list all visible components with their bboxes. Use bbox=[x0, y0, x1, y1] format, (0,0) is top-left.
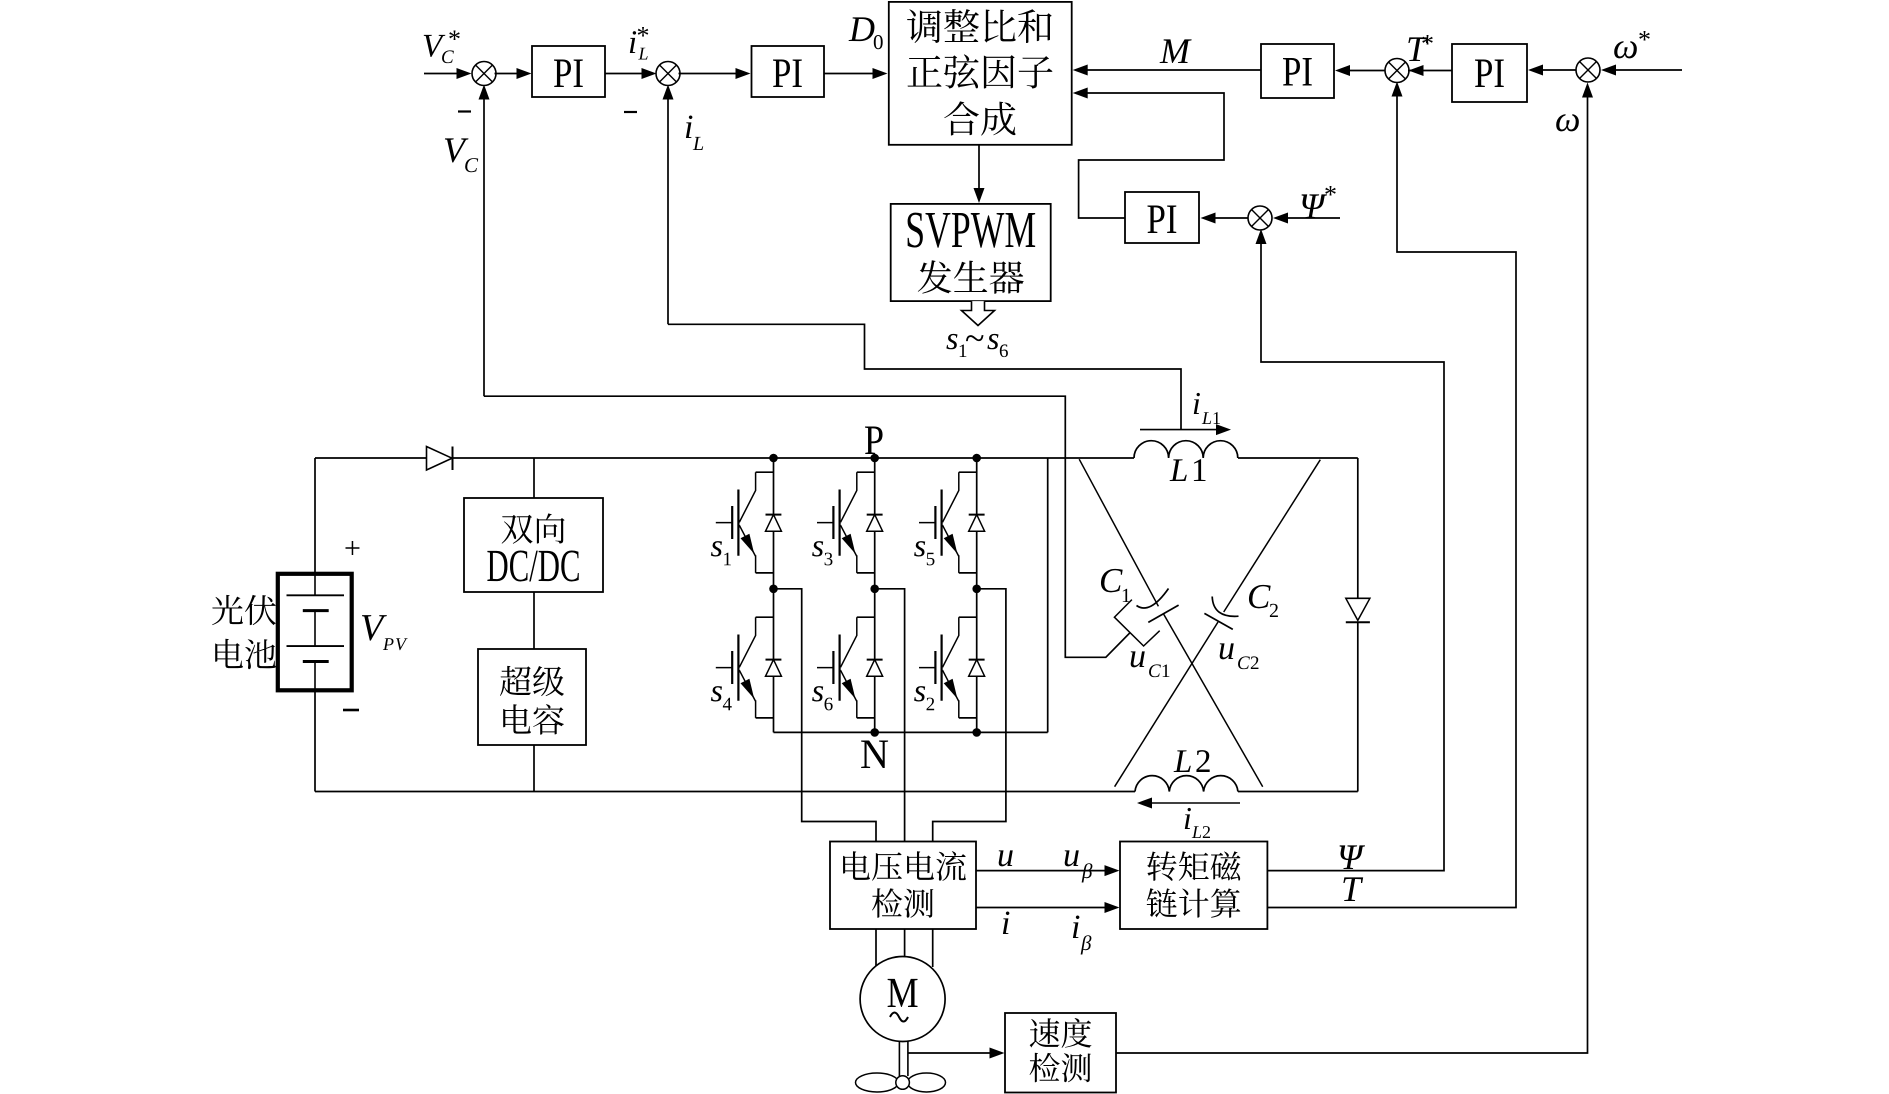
wire inverter leg 3 bbox=[976, 458, 978, 732]
node P label bbox=[865, 426, 883, 454]
wire Vc sense from capacitor C1 bbox=[484, 396, 1130, 657]
wire Vc* input bbox=[424, 68, 472, 79]
diode D1 (PV series diode) bbox=[427, 447, 453, 471]
wire inverter leg 1 bbox=[773, 458, 775, 732]
diode D2 (Z-source diode) bbox=[1346, 598, 1370, 622]
node P-rail junction leg 2 bbox=[870, 454, 879, 463]
wire iL feedback rising bbox=[663, 85, 674, 325]
wire N rail bbox=[774, 731, 1048, 733]
node iL1 current arrow bbox=[1140, 424, 1231, 435]
wire phase C output bbox=[933, 589, 1006, 842]
PI controller U4 (torque) box bbox=[1261, 44, 1334, 98]
wire M feedback (torque PI output to modulation box) bbox=[1073, 65, 1261, 76]
node M label bbox=[1160, 39, 1192, 63]
PI controller U6 (flux) box bbox=[1125, 192, 1199, 243]
wire diagonal L1-to-N upper segment bbox=[1224, 460, 1321, 612]
wire shaft to speed detection bbox=[908, 1048, 1005, 1059]
inductor L2 bbox=[1135, 776, 1238, 792]
node iL2 label bbox=[1185, 808, 1210, 838]
block supercapacitor bbox=[478, 649, 586, 745]
wire inverter leg 2 bbox=[874, 458, 876, 732]
node N-rail junction leg 2 bbox=[870, 728, 879, 737]
node iL* label bbox=[630, 27, 648, 60]
node Vc* setpoint label bbox=[424, 30, 460, 63]
wire PI5 to SUM3 bbox=[1408, 65, 1452, 76]
node T* label bbox=[1408, 35, 1432, 61]
node L2 label bbox=[1174, 750, 1210, 772]
summing junction SUM1 (Vc error) bbox=[472, 62, 496, 86]
node omega feedback label bbox=[1556, 114, 1579, 131]
capacitor C1 bbox=[1137, 589, 1179, 623]
wire SUM2 to PI2 bbox=[679, 68, 751, 79]
wire DC/DC top connection bbox=[533, 458, 535, 498]
wire Z-network left edge bbox=[1047, 458, 1049, 732]
node psi* label bbox=[1302, 186, 1336, 218]
wire PV positive lead bbox=[314, 458, 316, 574]
wire phase B output bbox=[875, 589, 905, 842]
wire u to torque-flux calculator bbox=[976, 865, 1120, 876]
node C2 label bbox=[1249, 585, 1278, 617]
node T output label bbox=[1343, 877, 1363, 901]
wire SUM5 to PI6 bbox=[1201, 213, 1249, 224]
battery BT1 (PV array) outline bbox=[278, 574, 352, 691]
node Vpv label bbox=[362, 615, 408, 650]
node uC1 label bbox=[1131, 651, 1170, 677]
wire omega feedback to SUM4 bbox=[1116, 83, 1593, 1054]
node omega* label bbox=[1614, 31, 1650, 58]
wire diagonal L1-to-N lower segment bbox=[1115, 622, 1218, 787]
wire supercapacitor bottom connection bbox=[533, 745, 535, 792]
wire i to torque-flux calculator bbox=[976, 902, 1120, 913]
wire flux-PI output to modulation box input 2 bbox=[1073, 88, 1224, 219]
wire top rail right section bbox=[1238, 457, 1358, 459]
wire SUM3 to PI4 bbox=[1335, 65, 1387, 76]
block U3: modulation-ratio and sine-factor synthesis bbox=[889, 2, 1072, 145]
wire motor phase leads bbox=[876, 929, 933, 967]
transistor S6 with antiparallel diode (bottom leg 2) bbox=[812, 617, 883, 718]
wire Psi feedback to SUM5 bbox=[1256, 229, 1445, 871]
wire omega* input bbox=[1601, 65, 1682, 76]
propeller load bbox=[856, 1073, 946, 1092]
node minus label bbox=[343, 709, 359, 712]
wire modulation box to SVPWM generator bbox=[974, 145, 985, 203]
wire diagonal P-to-L2 lower segment bbox=[1164, 614, 1263, 787]
wire bottom DC rail bbox=[315, 791, 1358, 793]
node PV battery label bbox=[212, 595, 276, 669]
node uC1 sense tap bbox=[1114, 600, 1159, 646]
node minus sign at SUM1 bbox=[458, 110, 471, 112]
wire iL sense from inductor L1 bbox=[668, 324, 1181, 429]
transistor S5 with antiparallel diode (top leg 3) bbox=[914, 472, 985, 573]
node D0 label bbox=[849, 17, 883, 49]
wire PI1 to SUM2 bbox=[605, 68, 657, 79]
wire diagonal P-to-L2 upper segment bbox=[1079, 459, 1158, 606]
wire Z-network right edge upper bbox=[1357, 458, 1359, 598]
PI controller U2 box bbox=[752, 46, 825, 97]
summing junction SUM3 (torque error) bbox=[1385, 59, 1409, 83]
wire top DC rail bbox=[315, 457, 1134, 459]
wire Z-network right edge lower bbox=[1357, 622, 1359, 791]
node C1 label bbox=[1101, 569, 1130, 602]
wire T feedback to SUM3 bbox=[1267, 82, 1516, 908]
PI controller U1 box bbox=[532, 46, 605, 97]
node plus label bbox=[345, 541, 359, 555]
node iL1 label bbox=[1194, 393, 1220, 424]
wire motor shaft bbox=[899, 1042, 908, 1077]
transistor S4 with antiparallel diode (bottom leg 1) bbox=[711, 617, 782, 718]
PI controller U5 (speed) box bbox=[1452, 44, 1527, 102]
capacitor C2 bbox=[1204, 597, 1238, 630]
wire SUM1 to PI1 bbox=[495, 68, 532, 79]
node P-rail junction leg 3 bbox=[972, 454, 981, 463]
block U8: bidirectional DC/DC converter bbox=[464, 498, 603, 592]
wire SUM4 to PI5 bbox=[1528, 65, 1576, 76]
transistor S1 with antiparallel diode (top leg 1) bbox=[711, 472, 782, 573]
wire Vc feedback rising bbox=[479, 85, 490, 397]
wire PI2 to modulation box bbox=[824, 68, 888, 79]
wire phase A output bbox=[774, 589, 877, 842]
node iL feedback label bbox=[686, 115, 703, 150]
node i-beta label bbox=[1073, 915, 1092, 954]
node phase midpoint junction leg 3 bbox=[972, 585, 981, 594]
node uC2 label bbox=[1220, 643, 1259, 669]
block U11: speed detection bbox=[1005, 1013, 1116, 1093]
node s1~s6 label bbox=[946, 334, 1008, 357]
summing junction SUM4 (speed error) bbox=[1576, 58, 1600, 82]
node phase midpoint junction leg 1 bbox=[769, 585, 778, 594]
node i label bbox=[1003, 911, 1010, 934]
node u-beta label bbox=[1065, 850, 1093, 882]
node u label bbox=[999, 850, 1013, 866]
block U7: SVPWM generator bbox=[891, 204, 1051, 301]
wire psi* input bbox=[1273, 213, 1340, 224]
transistor S3 with antiparallel diode (top leg 2) bbox=[812, 472, 883, 573]
bus arrow s1-s6 (hollow) bbox=[962, 301, 995, 325]
node minus sign at SUM2 bbox=[624, 111, 637, 113]
node Psi output label bbox=[1340, 845, 1365, 869]
node N-rail junction leg 3 bbox=[972, 728, 981, 737]
summing junction SUM2 (iL error) bbox=[656, 62, 680, 86]
block U10: torque-flux calculator bbox=[1120, 842, 1267, 930]
motor M1 (AC machine) bbox=[860, 957, 945, 1042]
battery BT1 cell plates bbox=[287, 574, 345, 691]
block U9: voltage-current detection bbox=[830, 842, 976, 930]
node phase midpoint junction leg 2 bbox=[870, 585, 879, 594]
node L1 label bbox=[1170, 459, 1206, 481]
node N label bbox=[861, 740, 888, 768]
summing junction SUM5 (flux error) bbox=[1248, 206, 1272, 230]
node iL2 current arrow bbox=[1137, 798, 1240, 809]
transistor S2 with antiparallel diode (bottom leg 3) bbox=[914, 617, 985, 718]
inductor L1 bbox=[1134, 441, 1238, 458]
wire PV negative lead bbox=[314, 690, 316, 791]
node Vc feedback label bbox=[445, 138, 478, 172]
node P-rail junction leg 1 bbox=[769, 454, 778, 463]
wire DC/DC to supercapacitor bbox=[533, 592, 535, 649]
